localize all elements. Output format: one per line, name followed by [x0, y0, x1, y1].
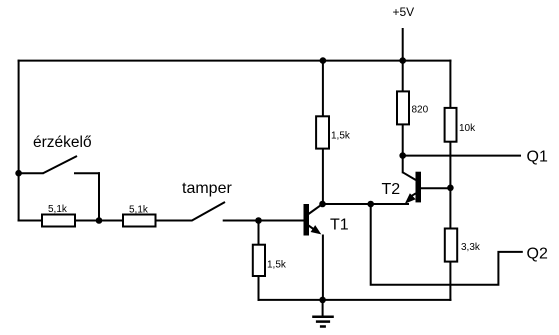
wire rail to R 1,5k top: [322, 60, 324, 117]
wire Q1 output line: [403, 155, 521, 157]
wire sensor row right segment to T1 base: [223, 220, 304, 222]
resistor R 10k: [445, 108, 457, 142]
svg-text:1,5k: 1,5k: [267, 260, 287, 271]
svg-text:+5V: +5V: [393, 5, 415, 19]
wire sensor row left segment: [18, 220, 192, 222]
svg-text:Q2: Q2: [527, 246, 548, 263]
transistor T1: [304, 204, 322, 236]
wire Q2 path: [371, 203, 523, 285]
wire erzekelo switch right lead: [74, 172, 100, 174]
wire T1 emitter to ground rail: [322, 235, 324, 301]
svg-text:érzékelő: érzékelő: [33, 134, 92, 151]
svg-text:T1: T1: [330, 217, 349, 234]
wire R 3,3k bottom to ground rail: [449, 261, 451, 301]
switch erzekelo blade: [43, 156, 77, 173]
node junction T2 base / 10k / 3,3k: [447, 185, 454, 192]
wire T2 base lead: [420, 187, 451, 189]
node junction T1 collector: [319, 201, 326, 208]
ground symbol: [312, 317, 334, 327]
wire erzekelo switch left lead: [18, 172, 44, 174]
transistor T2: [403, 172, 421, 204]
svg-text:5,1k: 5,1k: [48, 204, 68, 215]
wire rail to 820: [402, 60, 404, 92]
node junction erzekelo contact / sensor row: [96, 217, 103, 224]
svg-text:10k: 10k: [459, 123, 476, 134]
node junction Q1 / 820: [399, 152, 406, 159]
wire left vertical bus: [18, 60, 20, 222]
wire erzekelo contact drop: [98, 172, 100, 221]
wire R 1,5k bottom to T1 collector: [322, 148, 324, 204]
node junction ground: [319, 297, 326, 304]
wire R 1,5k lower top lead: [258, 220, 260, 246]
node junction T2 emitter / Q2 drop: [367, 201, 374, 208]
resistor R 3,3k: [445, 229, 457, 262]
wire rail to 10k: [449, 60, 451, 108]
svg-text:3,3k: 3,3k: [461, 242, 481, 253]
resistor R 1,5k upper: [316, 116, 329, 148]
wire top +5V rail: [18, 60, 452, 62]
resistor R 1,5k lower: [253, 245, 265, 276]
resistor R 820: [397, 91, 409, 124]
wire ground stub: [322, 299, 324, 316]
svg-text:Q1: Q1: [527, 149, 548, 166]
wire T2 base node to R 3,3k: [449, 187, 451, 229]
resistor R 5,1k first: [42, 215, 75, 227]
node junction rail / +5V: [399, 57, 406, 64]
svg-text:5,1k: 5,1k: [129, 205, 149, 216]
node junction left bus / erzekelo: [15, 170, 22, 177]
wire +5V stub: [402, 28, 404, 62]
node junction rail / R 1,5k upper: [320, 57, 327, 64]
svg-text:tamper: tamper: [182, 180, 232, 197]
svg-text:1,5k: 1,5k: [331, 131, 351, 142]
switch tamper blade: [192, 202, 226, 221]
wire R 1,5k lower bottom lead: [258, 275, 260, 301]
wire 820 bottom to Q1 node: [402, 124, 404, 157]
resistor R 5,1k second: [123, 215, 156, 227]
wire Q1 node to T2 collector: [402, 155, 404, 174]
svg-text:820: 820: [412, 105, 429, 116]
wire bottom ground rail: [258, 299, 452, 301]
wire T1 collector to T2 emitter: [322, 203, 409, 205]
wire 10k bottom to T2 base node: [449, 141, 451, 189]
svg-text:T2: T2: [382, 181, 401, 198]
node junction sensor row / R 1,5k lower: [255, 217, 262, 224]
